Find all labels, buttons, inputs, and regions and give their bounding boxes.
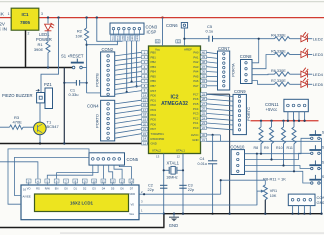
wire R1 to GND line [47, 53, 49, 68]
svg-text:13: 13 [156, 155, 160, 159]
svg-text:GND: GND [151, 142, 157, 146]
svg-text:CON4: CON4 [87, 103, 99, 108]
svg-text:VDD: VDD [129, 192, 135, 196]
connector CON5 [89, 153, 125, 165]
svg-text:RST: RST [117, 36, 119, 41]
node LCD VDD pin junction [143, 193, 145, 195]
svg-text:ATMEGA32: ATMEGA32 [161, 101, 188, 107]
capacitor C5 0.1u [208, 36, 210, 42]
svg-text:CON7: CON7 [218, 46, 230, 51]
wire LED1 branch from rail [47, 16, 49, 18]
wire IC2 GND route black vertical [207, 93, 230, 95]
svg-text:▪RESET: ▪RESET [68, 54, 84, 59]
svg-text:RS: RS [36, 187, 40, 191]
resistor R11 1K [293, 121, 295, 127]
svg-text:PIEZO BUZZER: PIEZO BUZZER [2, 93, 32, 98]
svg-text:XTAL2: XTAL2 [152, 148, 161, 152]
IC2 right pin number boxes [201, 51, 207, 142]
IC1 7805 [8, 8, 43, 35]
svg-text:PD4: PD4 [151, 113, 157, 117]
svg-text:V0: V0 [131, 202, 135, 206]
svg-text:0.1u: 0.1u [206, 29, 214, 34]
svg-text:ICSP: ICSP [147, 30, 157, 35]
+5V rail lower right [251, 120, 319, 122]
svg-text:GND: GND [122, 35, 124, 40]
svg-text:D7: D7 [130, 187, 134, 191]
svg-text:0.33u: 0.33u [69, 92, 79, 97]
svg-text:CON6: CON6 [166, 23, 178, 28]
wire 12V input to IC1 [0, 17, 11, 19]
wire CON10 row4 to S5 [245, 171, 311, 183]
svg-text:PB0: PB0 [151, 51, 157, 55]
svg-text:C4: C4 [200, 157, 205, 161]
bottom page shadow line [60, 232, 324, 233]
IC2 AREF top pin [176, 40, 181, 43]
svg-text:A/VEE: A/VEE [23, 195, 31, 199]
crystal XTAL1 16MHz [163, 154, 165, 214]
op IC2 ATMEGA32 body [149, 46, 201, 154]
wire ICSP MOSI down [136, 41, 138, 86]
wire AVCC to C4 [207, 134, 221, 136]
svg-text:LED3: LED3 [313, 52, 324, 57]
wire +5V branch to PZ1 [57, 16, 59, 18]
IC2 right pin labels [191, 51, 199, 142]
wire +5V row1 drop [256, 154, 258, 205]
wire ICSP RST to reset net [87, 41, 118, 45]
svg-text:SCK: SCK [127, 36, 129, 41]
svg-text:PC6: PC6 [193, 97, 199, 101]
svg-text:R8-R11 = 1K: R8-R11 = 1K [263, 176, 286, 181]
svg-text:PC0: PC0 [193, 126, 199, 130]
resistor R9 1K [271, 121, 273, 127]
wire CON10 row2 to S3 [245, 153, 311, 159]
svg-text:S1: S1 [61, 54, 67, 59]
svg-text:PB5: PB5 [151, 75, 157, 79]
svg-text:PZ1: PZ1 [44, 82, 52, 87]
svg-text:R4 330E: R4 330E [271, 34, 286, 38]
wire CON10 row3 to S4 [245, 166, 311, 169]
connector CON3 ICSP [96, 16, 98, 18]
CON3 pin stubs [114, 30, 140, 35]
svg-text:PC7: PC7 [193, 92, 199, 96]
svg-text:22p: 22p [148, 188, 154, 192]
wire CON8 pin3 to R6 [252, 73, 275, 76]
IC2 left pin labels [151, 51, 165, 146]
svg-text:TXD0/PD1: TXD0/PD1 [151, 132, 165, 136]
svg-text:R11: R11 [287, 146, 293, 150]
svg-text:PC2: PC2 [193, 116, 199, 120]
svg-text:16MHz: 16MHz [166, 176, 178, 180]
wires CON4 to IC2 PD pins [115, 100, 142, 138]
svg-text:CON8: CON8 [240, 54, 252, 59]
svg-text:390E: 390E [34, 47, 44, 52]
svg-text:+5Vcc: +5Vcc [266, 107, 278, 112]
wire ICSP MISO down [131, 41, 133, 82]
svg-text:PD5: PD5 [151, 118, 157, 122]
svg-text:PORTC: PORTC [246, 107, 251, 121]
svg-text:D1: D1 [74, 187, 78, 191]
svg-text:VCC: VCC [112, 36, 114, 41]
svg-text:DC IN: DC IN [0, 27, 7, 32]
LCD1 16x2 module [21, 185, 139, 220]
wire ICSP SCK down [126, 41, 128, 92]
svg-text:16X2 LCD1: 16X2 LCD1 [70, 201, 93, 206]
svg-text:D2: D2 [83, 187, 87, 191]
svg-text:GND: GND [192, 138, 198, 142]
svg-text:1: 1 [8, 12, 10, 16]
svg-text:MOSI: MOSI [137, 35, 139, 41]
svg-text:C3: C3 [188, 184, 193, 188]
LED4 [301, 68, 308, 78]
switch S2 [314, 130, 316, 135]
LED5 [301, 78, 308, 88]
LED2 [301, 32, 308, 42]
svg-text:PC5: PC5 [193, 102, 199, 106]
svg-text:PA3: PA3 [193, 65, 199, 69]
svg-text:PA5: PA5 [193, 75, 199, 79]
top border line [0, 1, 324, 2]
svg-text:D0: D0 [64, 187, 68, 191]
capacitor C2 22p [160, 184, 167, 186]
capacitor C1 0.33u [64, 82, 76, 84]
LCD pin stubs [29, 183, 132, 185]
IC2 left pin number boxes [142, 51, 148, 145]
svg-text:GND: GND [169, 223, 178, 228]
CON3 pin label boxes [110, 35, 139, 41]
svg-text:470E: 470E [13, 120, 23, 125]
LED1 POWER [45, 23, 55, 31]
svg-text:10K: 10K [270, 194, 277, 198]
svg-text:CON2: CON2 [102, 47, 114, 52]
wire GND riser (black vertical to mid bus) [63, 68, 65, 144]
wire GND horizontal upper (black) [0, 67, 73, 69]
ground bus bottom (black) [164, 213, 321, 215]
svg-text:16: 16 [23, 187, 27, 191]
wire IC1 GND down (black) [25, 30, 27, 67]
svg-text:IC1: IC1 [21, 12, 29, 17]
svg-text:PD1: PD1 [151, 98, 157, 102]
svg-text:D6: D6 [120, 187, 124, 191]
wire loop W3 to LCD left upper [15, 157, 90, 195]
svg-text:PD7: PD7 [151, 127, 157, 131]
svg-text:R5 330E: R5 330E [271, 49, 286, 53]
resistor R10 1K [283, 121, 285, 127]
svg-text:CON9: CON9 [234, 89, 246, 94]
svg-text:VO: VO [27, 187, 31, 191]
svg-text:IC2: IC2 [170, 95, 178, 101]
svg-text:AREF: AREF [184, 48, 192, 52]
wire loop W1 to LCD left lower [8, 149, 89, 204]
wires IC2 PC to CON9 [207, 94, 234, 130]
svg-text:PA6: PA6 [193, 79, 199, 83]
resistor R2 10K + reset vertical [85, 16, 87, 18]
svg-text:2: 2 [28, 31, 30, 35]
+5V rail top [39, 17, 324, 19]
svg-text:7805: 7805 [20, 20, 31, 25]
svg-text:Vcc: Vcc [155, 48, 161, 52]
svg-text:PC1: PC1 [193, 121, 199, 125]
svg-text:PORTA: PORTA [231, 63, 236, 77]
svg-text:PA1: PA1 [193, 55, 199, 59]
svg-text:PD3: PD3 [151, 108, 157, 112]
svg-text:R6 330E: R6 330E [271, 69, 286, 73]
svg-text:R7 330E: R7 330E [271, 79, 286, 83]
svg-text:LED5: LED5 [313, 82, 324, 87]
ground bus mid (black) [0, 143, 149, 145]
svg-text:CON5: CON5 [127, 157, 139, 162]
wires IC2 PA to CON7 [207, 52, 218, 86]
svg-text:BC547: BC547 [47, 124, 60, 129]
svg-text:PORTD: PORTD [95, 114, 100, 128]
svg-text:PD2: PD2 [151, 103, 157, 107]
svg-text:PA0: PA0 [193, 51, 199, 55]
svg-text:R/W: R/W [45, 187, 51, 191]
svg-text:D5: D5 [111, 187, 115, 191]
svg-text:0.01u: 0.01u [198, 162, 208, 166]
wire CON10 row1 to S2 [245, 138, 311, 153]
svg-text:R8: R8 [254, 146, 259, 150]
wire VR1 top loop [221, 180, 266, 194]
wire S1 right to reset net [82, 67, 86, 69]
wire T1 emitter to bus [39, 134, 41, 144]
transistor T1 BC547 [39, 103, 41, 123]
LCD side pin labels [23, 187, 136, 215]
svg-text:10K: 10K [75, 33, 82, 38]
svg-text:PA7: PA7 [193, 84, 199, 88]
wire V0 net to LCD [139, 191, 257, 205]
svg-text:PB1: PB1 [151, 55, 157, 59]
svg-text:PA4: PA4 [193, 70, 199, 74]
wire CON8 pin2 to R5 [252, 55, 275, 69]
wires CON5 to LCD pins [47, 165, 131, 179]
svg-text:PB7: PB7 [151, 84, 157, 88]
resistor R1 390E [46, 42, 50, 53]
capacitor C4 0.01u [212, 135, 214, 161]
IC2 Vcc top pin [155, 40, 160, 43]
wire VDD net to LCD [139, 193, 221, 195]
svg-text:PB2: PB2 [151, 60, 157, 64]
svg-text:PB3: PB3 [151, 65, 157, 69]
svg-text:CON10: CON10 [230, 144, 245, 149]
svg-text:3: 3 [41, 12, 43, 16]
ground symbol GND [173, 213, 175, 215]
svg-text:12: 12 [177, 155, 181, 159]
wire VR1 bottom to bus (black) [264, 200, 266, 214]
resistor R8 1K [260, 121, 262, 127]
node junction R1 bottom on GND line [47, 66, 49, 68]
capacitor C3 22p [179, 184, 186, 186]
LCD top pin number boxes [26, 179, 134, 183]
svg-text:GND: GND [317, 200, 324, 205]
svg-text:PD0: PD0 [151, 94, 157, 98]
svg-text:Vss: Vss [129, 212, 134, 216]
svg-text:RXD0/PD0: RXD0/PD0 [151, 137, 165, 141]
svg-text:D4: D4 [102, 187, 106, 191]
wire reset net into row 9 [87, 92, 101, 94]
svg-text:XTAL1: XTAL1 [167, 160, 180, 165]
wire CON8 pin4 to R7 [252, 81, 275, 85]
svg-text:D3: D3 [92, 187, 96, 191]
svg-text:22p: 22p [188, 188, 194, 192]
svg-text:PORTB: PORTB [95, 73, 100, 87]
svg-text:XTAL1: XTAL1 [176, 148, 185, 152]
wire CON8 pin1 to LED2 net [252, 39, 259, 63]
wire LCD VSS to bus [139, 213, 164, 215]
wire RS from left edge [0, 162, 38, 179]
svg-text:PC4: PC4 [193, 107, 199, 111]
wire LED1 to R1 [47, 31, 49, 42]
svg-text:R10: R10 [276, 146, 283, 150]
svg-text:PC3: PC3 [193, 112, 199, 116]
svg-text:PB6: PB6 [151, 79, 157, 83]
svg-text:LED4: LED4 [313, 72, 324, 77]
svg-text:AVCC: AVCC [191, 133, 199, 137]
connector CON12 GND [288, 194, 315, 206]
wire GND row to switches gnd [207, 140, 322, 142]
svg-text:PD6: PD6 [151, 122, 157, 126]
svg-text:LED2: LED2 [313, 36, 324, 41]
switch S4 [314, 160, 316, 165]
svg-text:PA2: PA2 [193, 60, 199, 64]
switch S5 [314, 175, 316, 180]
potentiometer VR1 10K [263, 185, 267, 200]
LCD top pin labels [27, 187, 134, 191]
wires CON2 to IC2 PB pins [115, 52, 142, 94]
wire switches gnd chain [321, 138, 323, 213]
svg-text:RST: RST [151, 89, 157, 93]
svg-text:VR1: VR1 [270, 189, 277, 193]
switch S3 [314, 145, 316, 150]
LED3 [301, 48, 308, 58]
wire AREF / C5 net [184, 38, 208, 40]
svg-text:C2: C2 [148, 184, 153, 188]
svg-text:PB4: PB4 [151, 70, 157, 74]
svg-text:MISO: MISO [132, 35, 134, 41]
svg-text:R9: R9 [264, 146, 269, 150]
node 12V DC IN labels [0, 12, 7, 32]
svg-text:EN: EN [55, 187, 59, 191]
